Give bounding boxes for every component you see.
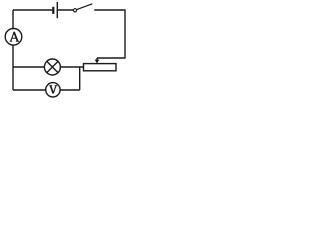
wire junction vertical [79,66,81,90]
rheostat R body [84,64,117,71]
ammeter label A [10,32,19,41]
lamp L1 cross [47,61,58,72]
wire voltmeter branch [13,89,46,91]
switch S1 pivot [73,9,76,12]
wire right vertical [124,9,126,58]
wire to rheostat slider [97,57,126,59]
wire lamp to rheostat [60,66,83,68]
wire left vertical lower [12,45,14,90]
switch S1 lever [76,4,92,10]
wire left to lamp [13,66,44,68]
ammeter A1 circle [5,29,22,46]
wire left vertical upper [12,10,14,29]
wire battery to switch [57,9,73,11]
battery B1 short plate [52,7,54,14]
battery B1 long plate [56,2,58,18]
wire top-left horizontal [13,9,53,11]
lamp L1 circle [44,59,60,75]
rheostat slider arrowhead [95,60,100,64]
wire switch to top-right corner [94,9,125,11]
rheostat slider stem [96,58,98,60]
voltmeter label V [49,86,57,94]
wire voltmeter to junction [60,89,80,91]
voltmeter V1 circle [46,83,60,97]
